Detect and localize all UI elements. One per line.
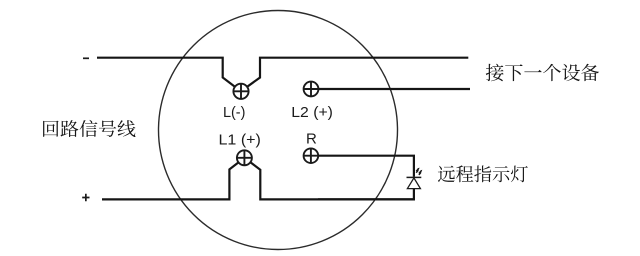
svg-text:L2 (+): L2 (+) (291, 104, 333, 121)
svg-text:R: R (306, 130, 317, 147)
svg-text:L1 (+): L1 (+) (219, 131, 261, 148)
svg-text:L(-): L(-) (223, 104, 245, 121)
